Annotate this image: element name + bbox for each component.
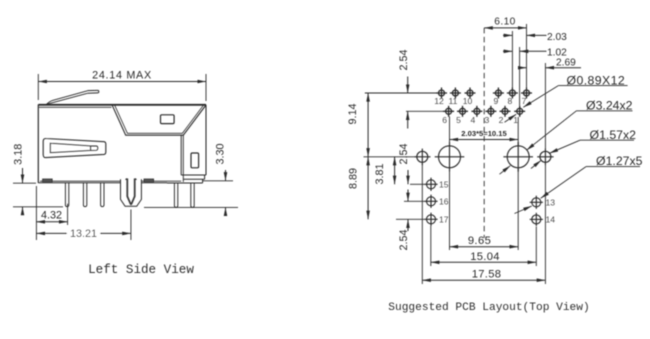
svg-text:4: 4 [471,115,476,125]
extension line hole17 column lower [430,226,432,266]
right section edge line outer [180,135,182,175]
svg-text:3.18: 3.18 [13,144,25,165]
hole 16 (Ø1.27) [424,195,437,208]
body baseline lower line left part [38,182,120,184]
leader Ø3.24x2 upper segment [527,111,577,150]
extension line upper pin row [365,92,437,94]
dim 1.02 left arrow [503,50,512,52]
extension line left edge (shared 4.32/13.21) [35,186,37,240]
dim 3.18 upper arrow [22,168,24,183]
leader Ø3.24x2 lower segment [500,166,511,175]
dim 1.02 right arrow [520,50,547,52]
dim line 6.10 [484,27,526,29]
mounting hole right (Ø3.24) [503,142,533,172]
svg-text:4.32: 4.32 [41,209,62,221]
dim line 4.32 [36,221,67,223]
svg-text:1: 1 [513,115,518,125]
extension line pin8 column [511,31,513,88]
extension line 3.30 top [203,180,233,182]
pin leg 5 (right pair) [191,183,194,207]
pin hole 3 (Ø0.89) [485,106,496,117]
extension line pin1/right circle column [517,117,519,146]
svg-text:2.54: 2.54 [398,143,410,164]
dim 2.69 right arrow [545,67,581,69]
extension line 3.18 top [13,182,36,184]
latch slot inner [50,143,98,153]
leader Ø1.27x5 lower segment [515,206,532,214]
pin hole 7 (Ø0.89) [521,88,532,99]
extension line 13.21 right (post center) [130,210,132,241]
body top inner thin line [39,106,112,108]
svg-text:17: 17 [439,215,449,225]
dim 3.18 lower arrow [22,207,24,214]
dim line 10.15 [450,139,519,141]
svg-text:24.14 MAX: 24.14 MAX [92,70,152,82]
dim line 9.14 [367,93,369,157]
connector body top edge [38,104,206,106]
pin hole 9 (Ø0.89) [493,88,504,99]
dim 2.54 mid arrow down 2 [407,190,409,202]
body baseline lower line right part [141,182,167,184]
dim line 8.89 [367,157,369,220]
extension line right circle column lower [517,169,519,251]
body baseline upper line left part [40,180,121,182]
hole 13 (Ø1.27) [530,196,543,209]
label Ø3.24x2 underline [576,110,632,112]
dim line 15.04 [431,261,537,263]
pin leg 2 [83,183,86,207]
pin hole 10 (Ø0.89) [465,88,476,99]
svg-text:11: 11 [448,96,457,106]
extension line pin7 column [526,24,528,88]
leader Ø1.27x5 upper segment [541,167,586,199]
svg-text:3: 3 [485,115,490,125]
extension line hole14 column lower [535,227,537,267]
latch slot outer [43,138,106,157]
label Ø0.89X12 underline [558,85,627,87]
extension line 24.14 left [37,74,39,100]
hole 14 (Ø1.27) [530,213,543,226]
extension line right locating hole column lower [544,164,546,284]
pin hole 1 (Ø0.89) [514,106,525,117]
dim 3.30 lower arrow [225,207,227,214]
svg-text:1.02: 1.02 [547,47,567,58]
vent hole on recess [161,115,175,124]
svg-text:2.03: 2.03 [547,32,567,43]
dim 2.03 right arrow [527,34,547,36]
svg-text:10: 10 [463,96,473,106]
extension line pin bottoms left [13,206,63,208]
pin hole 4 (Ø0.89) [471,106,482,117]
pin leg 1 [65,183,68,207]
shield tab left (filled) [43,179,53,182]
svg-text:9.65: 9.65 [468,235,491,247]
pin leg 3 [101,183,104,207]
dim line 3.81 [394,157,396,185]
locating hole left (Ø1.57) [414,149,430,165]
extension line hole16 row [404,200,425,202]
mounting hole left (Ø3.24) [435,142,465,172]
extension line hole15 row [410,183,425,185]
label Ø1.57x2 underline [580,139,634,141]
svg-text:8: 8 [508,96,513,106]
svg-text:Left Side View: Left Side View [88,263,194,277]
vertical centerline (dashed) [483,28,485,238]
svg-text:3.30: 3.30 [215,143,227,164]
svg-text:13: 13 [546,198,556,208]
side hole on right section [191,153,199,168]
svg-text:6.10: 6.10 [494,16,515,27]
extension line pin6/left circle column [449,117,451,146]
pin leg 4 (right pair) [174,183,177,207]
svg-text:6: 6 [442,115,447,125]
shield tab right (filled) [144,179,154,182]
latch lever arm [43,90,99,105]
svg-text:2.69: 2.69 [556,58,576,69]
svg-text:8.89: 8.89 [348,168,360,189]
extension line mount hole row [364,156,415,158]
right section bottom steps [167,175,206,183]
dim 2.54 bottom arrow [407,111,409,128]
body right edge [205,105,207,175]
extension line hole17 row [396,218,425,220]
pin hole 11 (Ø0.89) [450,88,461,99]
dim 2.54 top arrow [407,77,409,94]
svg-text:9: 9 [494,96,499,106]
extension line 4.32 right [67,204,69,225]
svg-text:7: 7 [522,96,527,106]
dim 2.03 left arrow [503,34,512,36]
extension line pin bottoms right [144,206,238,208]
dim 2.54 mid arrow down [407,170,409,184]
svg-text:13.21: 13.21 [70,228,97,240]
pin hole 12 (Ø0.89) [436,88,447,99]
leader Ø1.57x2 upper segment [550,140,581,153]
svg-text:2.03*5=10.15: 2.03*5=10.15 [461,129,507,138]
svg-text:15: 15 [439,180,449,190]
svg-text:17.58: 17.58 [472,269,502,281]
hole 17 (Ø1.27) [424,213,437,226]
svg-text:16: 16 [439,197,449,207]
body baseline upper line right part [141,180,181,182]
dim line 17.58 [422,279,545,281]
dim 3.30 upper arrow [225,170,227,181]
dim 2.69 left arrow [520,67,527,69]
svg-text:9.14: 9.14 [347,103,359,124]
svg-text:2.54: 2.54 [398,229,410,250]
dim line 13.21 [36,232,130,234]
locating hole right (Ø1.57) [537,149,553,165]
top recess trapezoid outer [112,105,206,135]
right section edge line inner [182,135,184,182]
extension line pin1 column top [519,47,521,106]
pin hole 8 (Ø0.89) [507,88,518,99]
svg-text:Ø1.27x5: Ø1.27x5 [596,154,643,168]
pin hole 6 (Ø0.89) [443,106,454,117]
leader Ø0.89X12 lower segment [505,114,517,122]
center post inner slot (bullet) [127,179,134,205]
hole 15 (Ø1.27) [424,178,437,191]
top recess trapezoid inner line [115,105,204,134]
leader Ø0.89X12 upper segment [523,86,558,108]
svg-text:3.81: 3.81 [374,163,386,184]
svg-text:2: 2 [499,115,504,125]
pin hole 2 (Ø0.89) [500,106,511,117]
svg-text:Ø3.24x2: Ø3.24x2 [586,98,633,112]
extension line 24.14 right [205,74,207,101]
extension line left circle column lower [449,169,451,251]
dim line 9.65 [450,246,519,248]
center mounting post outer [121,179,142,206]
svg-text:12: 12 [434,96,444,106]
label Ø1.27x5 underline [586,166,640,168]
svg-text:15.04: 15.04 [470,251,500,263]
svg-text:14: 14 [546,215,556,225]
pin hole 5 (Ø0.89) [457,106,468,117]
extension line lower pin row [406,110,444,112]
extension line left locating hole column lower [421,164,423,284]
svg-text:2.54: 2.54 [398,49,410,70]
dim 2.54 bottom arrow up [407,219,409,231]
leader Ø1.57x2 lower segment [531,160,541,168]
svg-text:Suggested PCB Layout(Top View): Suggested PCB Layout(Top View) [388,302,589,314]
extension line right locating hole column upper [544,63,546,150]
body left edge [37,105,39,184]
svg-text:5: 5 [456,115,461,125]
dim line 24.14 [38,81,206,83]
